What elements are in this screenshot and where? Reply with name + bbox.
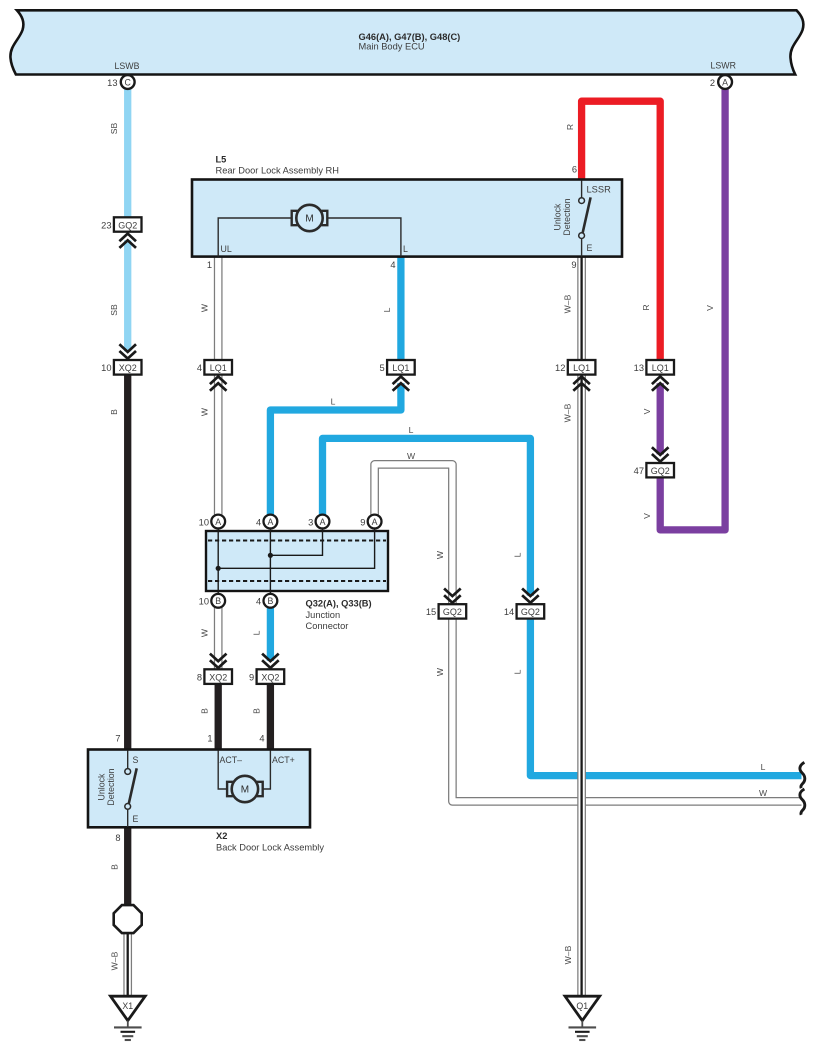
chevron up below 12 LQ1 [573, 377, 590, 391]
wire L (L5 pin 4 to 5 LQ1) [397, 257, 404, 360]
svg-text:V: V [705, 305, 715, 311]
wire W (L5 pin 1 to 4 LQ1) [214, 257, 223, 360]
svg-text:4: 4 [197, 363, 202, 373]
svg-text:S: S [133, 755, 139, 765]
chevron down above 47 GQ2 [652, 447, 669, 461]
svg-text:LSWR: LSWR [711, 61, 736, 71]
motor M of X2 [218, 751, 270, 803]
svg-text:Detection: Detection [106, 768, 116, 805]
svg-text:SB: SB [109, 123, 119, 135]
svg-text:X2: X2 [216, 831, 227, 841]
svg-text:XQ2: XQ2 [261, 673, 279, 683]
svg-text:GQ2: GQ2 [521, 607, 540, 617]
node 9 A [368, 515, 382, 529]
svg-text:A: A [320, 517, 326, 527]
chevron up below 13 LQ1 [652, 377, 669, 391]
svg-text:9: 9 [249, 673, 254, 683]
svg-text:Unlock: Unlock [97, 773, 107, 800]
octagon noise filter [114, 905, 142, 933]
svg-text:13: 13 [107, 78, 117, 88]
motor M of L5 [218, 205, 401, 257]
svg-text:L: L [513, 552, 523, 557]
svg-text:Main Body ECU: Main Body ECU [359, 42, 425, 52]
svg-text:B: B [200, 708, 210, 714]
chevron down above 8 XQ2 [210, 654, 227, 668]
connector 14 GQ2 [504, 589, 544, 619]
svg-text:SB: SB [109, 304, 119, 316]
svg-text:M: M [241, 785, 249, 796]
svg-text:B: B [252, 708, 262, 714]
connector 10 XQ2 [101, 344, 141, 374]
svg-text:W–B: W–B [110, 951, 120, 970]
node 4 A [264, 515, 278, 529]
wire L (junction 3A to 14 GQ2) [323, 438, 531, 595]
svg-text:E: E [587, 243, 593, 253]
node 10 A [211, 515, 225, 529]
svg-text:V: V [642, 513, 652, 519]
svg-text:2: 2 [710, 78, 715, 88]
connector 13 LQ1 [634, 360, 674, 391]
svg-text:9: 9 [571, 260, 576, 270]
svg-text:G46(A), G47(B), G48(C): G46(A), G47(B), G48(C) [359, 32, 461, 42]
svg-text:8: 8 [115, 833, 120, 843]
wire W (junction 10B to 8 XQ2) [214, 608, 223, 670]
svg-text:4: 4 [256, 517, 261, 527]
svg-text:L: L [331, 397, 336, 407]
svg-text:Unlock: Unlock [553, 203, 563, 230]
svg-text:B: B [215, 596, 221, 606]
svg-text:L: L [409, 425, 414, 435]
svg-text:Back Door Lock Assembly: Back Door Lock Assembly [216, 843, 324, 853]
junction dot [268, 553, 273, 558]
svg-text:W: W [759, 788, 768, 798]
svg-text:3: 3 [308, 517, 313, 527]
svg-text:1: 1 [207, 734, 212, 744]
wire W-B (12 LQ1 to ground Q1) [577, 375, 586, 996]
svg-text:4: 4 [390, 260, 395, 270]
svg-text:W: W [407, 451, 416, 461]
svg-text:L: L [513, 669, 523, 674]
svg-text:L: L [252, 630, 262, 635]
X2 back door lock assembly box [88, 750, 324, 853]
wire SB (pin 13C to 23 GQ2) [124, 89, 131, 218]
svg-text:W: W [200, 407, 210, 416]
svg-text:1: 1 [207, 260, 212, 270]
svg-text:B: B [110, 864, 120, 870]
wire L (5 LQ1 to junction 4A) [270, 383, 401, 515]
svg-text:10: 10 [199, 597, 209, 607]
connector 23 GQ2 [101, 217, 141, 248]
svg-text:UL: UL [221, 244, 232, 254]
pin 13 circle C [107, 75, 134, 89]
svg-text:LQ1: LQ1 [210, 363, 227, 373]
svg-text:14: 14 [504, 607, 514, 617]
page break squiggle for L wire [800, 762, 805, 788]
chevron up below 23 GQ2 [119, 234, 136, 248]
chevron down above 10 XQ2 [119, 344, 136, 358]
svg-text:W: W [200, 628, 210, 637]
wire L (junction 4B to 9 XQ2) [267, 608, 274, 661]
svg-text:ACT–: ACT– [220, 755, 243, 765]
svg-text:GQ2: GQ2 [443, 607, 462, 617]
connector 8 XQ2 [197, 654, 232, 684]
svg-text:23: 23 [101, 220, 111, 230]
svg-text:LQ1: LQ1 [573, 363, 590, 373]
svg-text:GQ2: GQ2 [118, 220, 137, 230]
main body ECU band [10, 10, 803, 74]
svg-text:A: A [722, 77, 728, 87]
connector 12 LQ1 [555, 360, 595, 391]
svg-text:L: L [382, 307, 392, 312]
wire V (47 GQ2 down, over to LSWR pin 2A) [660, 89, 725, 530]
svg-text:XQ2: XQ2 [119, 363, 137, 373]
wire W (15 GQ2 to right page break) [452, 618, 801, 801]
svg-text:W–B: W–B [563, 294, 573, 313]
connector 9 XQ2 [249, 654, 284, 684]
svg-text:M: M [305, 214, 313, 225]
switch LSSR unlock detection [579, 181, 591, 257]
svg-text:E: E [133, 814, 139, 824]
svg-text:8: 8 [197, 673, 202, 683]
chevron down above 14 GQ2 [522, 589, 539, 603]
pin 2 circle A [710, 75, 732, 89]
svg-text:LSSR: LSSR [587, 185, 612, 195]
ground X1 [111, 996, 146, 1040]
wire B (8 XQ2 to X2 pin 1) [215, 684, 222, 750]
svg-text:R: R [641, 304, 651, 310]
wire W-B (octagon to ground X1) [123, 931, 132, 996]
wire SB (23 GQ2 to 10 XQ2) [124, 240, 131, 351]
svg-text:LSWB: LSWB [115, 61, 140, 71]
svg-text:A: A [372, 517, 378, 527]
wire V (13 LQ1 to 47 GQ2) [657, 383, 664, 454]
svg-text:LQ1: LQ1 [392, 363, 409, 373]
chevron down above 15 GQ2 [444, 589, 461, 603]
chevron up below 4 LQ1 [210, 377, 227, 391]
wire W (4 LQ1 to junction 10A) [214, 375, 223, 515]
svg-text:Connector: Connector [306, 621, 349, 631]
svg-text:L: L [761, 762, 766, 772]
svg-text:Q1: Q1 [576, 1001, 588, 1011]
internal wiring of junction connector [218, 529, 374, 595]
svg-text:10: 10 [199, 517, 209, 527]
svg-text:4: 4 [259, 734, 264, 744]
connector 47 GQ2 [634, 447, 674, 477]
svg-text:4: 4 [256, 597, 261, 607]
svg-text:W–B: W–B [563, 403, 573, 422]
connector 15 GQ2 [426, 589, 466, 619]
svg-text:GQ2: GQ2 [651, 466, 670, 476]
svg-text:R: R [565, 124, 575, 130]
chevron up below 5 LQ1 [393, 377, 410, 391]
svg-text:W: W [200, 303, 210, 312]
page break squiggle for W wire [800, 789, 805, 815]
svg-text:6: 6 [572, 165, 577, 175]
wire B (10 XQ2 to X2 pin 7) [124, 375, 131, 750]
svg-text:W–B: W–B [563, 945, 573, 964]
svg-text:Rear Door Lock Assembly RH: Rear Door Lock Assembly RH [216, 166, 339, 176]
wire B (X2 pin 8 to octagon) [124, 827, 131, 906]
junction connector Q32(A) Q33(B) [199, 515, 388, 631]
svg-text:A: A [215, 517, 221, 527]
svg-text:C: C [125, 77, 132, 87]
wire W (junction 9A loop to 15 GQ2) [375, 464, 453, 604]
svg-text:47: 47 [634, 466, 644, 476]
wire W-B (L5 pin 9 to 12 LQ1) [577, 257, 586, 360]
svg-text:9: 9 [360, 517, 365, 527]
svg-text:Junction: Junction [306, 610, 341, 620]
svg-text:L5: L5 [216, 155, 227, 165]
ground Q1 [565, 996, 600, 1040]
switch unlock detection of X2 [125, 751, 137, 828]
svg-text:V: V [642, 408, 652, 414]
connector 4 LQ1 [197, 360, 232, 391]
wire L (14 GQ2 to right page break) [530, 618, 801, 775]
svg-text:5: 5 [380, 363, 385, 373]
node 4 B [264, 594, 278, 608]
wire B (9 XQ2 to X2 pin 4) [267, 684, 274, 750]
node 10 B [211, 594, 225, 608]
svg-text:XQ2: XQ2 [209, 673, 227, 683]
L5 rear door lock assembly RH box [192, 155, 622, 257]
node 3 A [316, 515, 330, 529]
svg-text:A: A [267, 517, 273, 527]
connector 5 LQ1 [380, 360, 415, 391]
svg-text:W: W [435, 667, 445, 676]
svg-text:B: B [109, 409, 119, 415]
svg-text:B: B [267, 596, 273, 606]
svg-text:LQ1: LQ1 [652, 363, 669, 373]
svg-text:10: 10 [101, 363, 111, 373]
wires layer [128, 89, 802, 997]
chevron down above 9 XQ2 [262, 654, 279, 668]
junction dot [216, 566, 221, 571]
svg-text:X1: X1 [122, 1001, 133, 1011]
svg-text:ACT+: ACT+ [272, 755, 295, 765]
svg-text:L: L [403, 244, 408, 254]
svg-text:Detection: Detection [562, 198, 572, 235]
svg-text:Q32(A), Q33(B): Q32(A), Q33(B) [306, 599, 372, 609]
svg-text:15: 15 [426, 607, 436, 617]
svg-text:13: 13 [634, 363, 644, 373]
wire R (L5 pin 6 up and over to 13 LQ1) [582, 101, 661, 360]
svg-text:12: 12 [555, 363, 565, 373]
svg-text:7: 7 [115, 734, 120, 744]
svg-text:W: W [435, 550, 445, 559]
